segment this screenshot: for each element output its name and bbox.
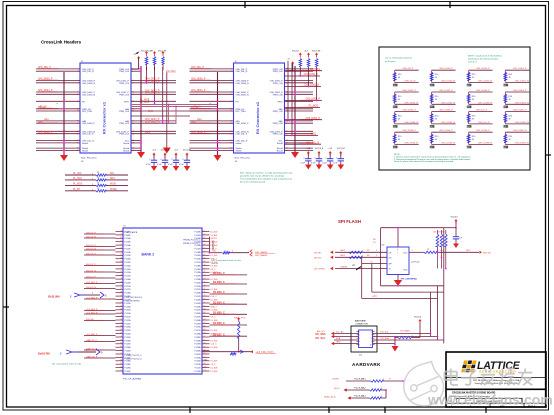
svg-text:PL28A: PL28A (194, 333, 201, 336)
svg-text:21: 21 (120, 268, 122, 270)
svg-text:66: 66 (204, 251, 206, 253)
svg-text:D1_B07: D1_B07 (211, 265, 218, 267)
svg-text:R10: R10 (435, 136, 438, 138)
svg-text:PL10B: PL10B (194, 361, 201, 363)
svg-text:4: 4 (359, 341, 360, 343)
svg-text:CH1_D0S1_N: CH1_D0S1_N (304, 85, 319, 87)
svg-text:+x: +x (56, 103, 58, 105)
svg-text:R10: R10 (398, 116, 401, 118)
svg-text:49: 49 (472, 77, 474, 79)
svg-text:D1_B01: D1_B01 (211, 330, 218, 332)
svg-text:SDOUT: SDOUT (211, 238, 218, 240)
svg-text:50: 50 (120, 367, 122, 369)
svg-text:PWR_LLB: PWR_LLB (119, 71, 129, 73)
svg-text:LED2: LED2 (340, 255, 346, 257)
svg-text:5555 NE Moore Court Hillsbor: 5555 NE Moore Court Hillsboro, Oregon 97… (473, 379, 520, 382)
svg-text:CH0_D0S0_N: CH0_D0S0_N (441, 81, 455, 83)
svg-text:49: 49 (509, 77, 511, 79)
svg-text:64: 64 (204, 244, 206, 246)
svg-text:Shield: Shield (82, 150, 89, 152)
svg-text:PL09B: PL09B (125, 235, 132, 237)
svg-text:1: 1 (412, 250, 413, 252)
svg-text:POD: POD (241, 318, 246, 320)
svg-text:PL18B: PL18B (194, 269, 201, 271)
svg-text:43: 43 (120, 343, 122, 345)
svg-text:D1_B00: D1_B00 (211, 231, 218, 233)
svg-text:DSI_D2_P: DSI_D2_P (86, 245, 96, 247)
svg-text:PL16B: PL16B (194, 255, 201, 257)
svg-text:47: 47 (120, 356, 122, 358)
svg-text:xjN : connected to same of cel: xjN : connected to same of cells (211, 259, 240, 262)
svg-text:CH0_D0S2_P: CH0_D0S2_P (236, 123, 250, 125)
svg-text:CH0_D0S1_P: CH0_D0S1_P (306, 118, 321, 120)
svg-text:VCC1.8: VCC1.8 (292, 51, 299, 53)
svg-text:2: 2 (359, 335, 360, 337)
svg-text:PL23B: PL23B (125, 330, 132, 332)
svg-text:PL26B: PL26B (125, 351, 132, 353)
svg-text:RX5TRIG: RX5TRIG (310, 69, 320, 71)
svg-text:PR09B_PCLKC2_1: PR09B_PCLKC2_1 (183, 243, 201, 245)
svg-text:86: 86 (204, 319, 206, 321)
svg-text:TX5_MA-R: TX5_MA-R (400, 329, 410, 332)
svg-text:Note: FSC-47xx: Note: FSC-47xx (235, 157, 251, 160)
svg-text:DSI_D0_P: DSI_D0_P (86, 276, 96, 278)
svg-text:+3.3: +3.3 (152, 150, 156, 152)
svg-text:PWR_LLB: PWR_LLB (273, 123, 283, 125)
svg-text:70: 70 (204, 264, 206, 266)
svg-text:PL02_SO/SPISO: PL02_SO/SPISO (125, 300, 141, 302)
svg-text:PL29B: PL29B (125, 371, 132, 373)
svg-text:FSC_0P_ALTERA: FSC_0P_ALTERA (123, 378, 141, 381)
svg-text:PWR_LLB: PWR_LLB (273, 111, 283, 113)
svg-text:CH0_D0L_P: CH0_D0L_P (236, 134, 248, 136)
svg-text:34: 34 (120, 312, 122, 314)
svg-text:R10: R10 (509, 96, 512, 98)
svg-text:35: 35 (120, 316, 122, 318)
svg-text:16: 16 (120, 251, 122, 253)
svg-text:33: 33 (120, 309, 122, 311)
svg-text:5: 5 (359, 345, 360, 347)
svg-text:D1_B01: D1_B01 (211, 235, 218, 237)
svg-text:SDA_X: SDA_X (211, 305, 218, 308)
svg-text:PL30A: PL30A (194, 346, 201, 349)
svg-text:R10: R10 (435, 116, 438, 118)
svg-text:CH0_D0_N: CH0_D0_N (404, 81, 416, 83)
svg-text:PWR_LLB: PWR_LLB (119, 134, 129, 136)
svg-text:90: 90 (204, 333, 206, 335)
svg-text:R10: R10 (509, 74, 512, 76)
svg-text:R10: R10 (509, 116, 512, 118)
svg-text:PL_IN: PL_IN (40, 107, 47, 109)
svg-text:PL18A: PL18A (125, 292, 132, 295)
svg-text:I2C_SDA: I2C_SDA (316, 333, 326, 336)
svg-text:CS_X: CS_X (211, 317, 217, 319)
svg-text:75: 75 (204, 281, 206, 283)
svg-text:49: 49 (398, 99, 400, 101)
svg-text:CH0_D0S6_N: CH0_D0S6_N (404, 143, 418, 145)
svg-text:CH0_D0S1_N: CH0_D0S1_N (236, 94, 250, 96)
svg-text:PL12A: PL12A (125, 251, 132, 254)
svg-text:PL27A: PL27A (194, 326, 201, 329)
svg-text:PL13A: PL13A (194, 230, 201, 233)
svg-text:1k: 1k (97, 177, 99, 179)
svg-text:R10: R10 (509, 136, 512, 138)
svg-text:SO: SO (389, 257, 392, 259)
svg-text:49: 49 (398, 77, 400, 79)
svg-text:CLK_X: CLK_X (211, 344, 218, 346)
svg-text:CH0_D0S3_N: CH0_D0S3_N (515, 102, 529, 104)
svg-text:D1_B07: D1_B07 (211, 361, 218, 363)
svg-text:10: 10 (120, 230, 122, 232)
svg-text:RX1_TRIG: RX1_TRIG (236, 111, 247, 113)
svg-text:VCC: VCC (403, 252, 408, 254)
svg-text:PL22B: PL22B (125, 323, 132, 325)
svg-text:PL28B_PCLKC2_0: PL28B_PCLKC2_0 (125, 358, 143, 360)
svg-text:GPIO: GPIO (277, 101, 283, 103)
svg-text:Dx: Dx (205, 360, 207, 362)
svg-text:PL25A: PL25A (194, 312, 201, 315)
svg-text:15: 15 (120, 247, 122, 249)
svg-text:D1_B03: D1_B03 (211, 340, 218, 342)
svg-text:TX5_R-MA-3: TX5_R-MA-3 (354, 395, 367, 398)
svg-text:PWR_LLB: PWR_LLB (119, 111, 129, 113)
svg-text:+D1_B04_P: +D1_B04_P (86, 309, 98, 311)
svg-text:71: 71 (204, 268, 206, 270)
svg-text:CH0_D0S2_N: CH0_D0S2_N (404, 102, 418, 104)
svg-text:GA1: GA1 (197, 118, 202, 121)
svg-text:VCC1_BT: VCC1_BT (312, 51, 321, 53)
svg-text:www.elecfans.com: www.elecfans.com (427, 392, 553, 408)
svg-text:PL26A: PL26A (125, 346, 132, 349)
svg-text:Shield: Shield (123, 150, 130, 152)
svg-text:PL20A: PL20A (125, 305, 132, 308)
svg-text:67: 67 (204, 254, 206, 256)
svg-text:PL15B: PL15B (194, 248, 201, 250)
svg-text:CH0_D0S0_N: CH0_D0S0_N (82, 83, 96, 85)
svg-text:PL11B: PL11B (195, 368, 202, 370)
svg-text:PWR_LLB: PWR_LLB (119, 123, 129, 125)
svg-text:R10: R10 (435, 74, 438, 76)
svg-text:PL21B: PL21B (125, 317, 132, 319)
svg-text:PL25B: PL25B (125, 344, 132, 346)
svg-text:D1_B04: D1_B04 (211, 347, 218, 349)
svg-text:CS_X: CS_X (211, 269, 217, 271)
svg-text:PWR_LLB: PWR_LLB (273, 94, 283, 96)
svg-text:CH0_D0S2_P: CH0_D0S2_P (38, 132, 53, 134)
svg-text:Shield: Shield (236, 143, 243, 145)
svg-text:DSI_D0_N: DSI_D0_N (86, 287, 96, 289)
svg-text:Note : Signals not used here,: Note : Signals not used here, in a high … (240, 172, 292, 175)
svg-text:PL15B: PL15B (125, 276, 132, 278)
svg-text:I2C_SCL: I2C_SCL (316, 337, 326, 340)
svg-text:CH1_D0S2_N: CH1_D0S2_N (441, 102, 455, 104)
svg-text:101: 101 (204, 370, 207, 372)
svg-text:PD: PD (82, 101, 85, 103)
svg-text:CH1_D0S0_N: CH1_D0S0_N (478, 81, 492, 83)
svg-text:92: 92 (204, 339, 206, 341)
svg-text:37: 37 (120, 322, 122, 324)
svg-text:R10: R10 (398, 136, 401, 138)
svg-text:100: 100 (204, 367, 207, 369)
svg-text:3: 3 (359, 338, 360, 340)
svg-text:1: 1 (92, 190, 93, 192)
svg-text:CS_X: CS_X (211, 364, 217, 366)
svg-text:DSI_CK_P: DSI_CK_P (86, 253, 97, 255)
svg-text:49: 49 (398, 118, 400, 120)
svg-text:12: 12 (120, 237, 122, 239)
svg-text:81: 81 (204, 302, 206, 304)
svg-text:TX5PN: TX5PN (332, 379, 339, 381)
svg-text:C9: C9 (460, 238, 462, 240)
svg-text:use as Termination attaches: use as Termination attaches (385, 57, 413, 60)
svg-text:PL20B: PL20B (194, 282, 201, 284)
svg-text:PL28B: PL28B (125, 364, 132, 366)
svg-text:PL23A: PL23A (125, 326, 132, 329)
svg-text:R5: R5 (367, 250, 369, 252)
svg-text:82: 82 (204, 305, 206, 307)
svg-text:(F) SCL: (F) SCL (314, 257, 322, 259)
svg-text:AVK_SCL: AVK_SCL (317, 330, 325, 333)
svg-text:CH0_D0_N: CH0_D0_N (478, 122, 490, 124)
svg-text:CH0_D0S5_N: CH0_D0S5_N (515, 143, 529, 145)
svg-text:RX1_TRIG: RX1_TRIG (82, 111, 93, 113)
svg-text:PL10A: PL10A (125, 237, 132, 240)
svg-text:74: 74 (204, 278, 206, 280)
svg-text:51: 51 (120, 370, 122, 372)
svg-text:PL25B: PL25B (194, 317, 201, 319)
svg-text:97: 97 (204, 356, 206, 358)
svg-text:CH0_D0S1_N: CH0_D0S1_N (145, 122, 160, 124)
svg-text:VCC1.8_B: VCC1.8_B (315, 148, 324, 150)
svg-text:72: 72 (204, 271, 206, 273)
svg-text:78: 78 (204, 292, 206, 294)
svg-text:PL10B: PL10B (125, 242, 132, 244)
svg-text:DSI1: DSI1 (145, 132, 151, 134)
svg-text:PWR_LLB: PWR_LLB (273, 71, 283, 73)
svg-text:PL14B: PL14B (125, 269, 132, 271)
svg-text:PL28A_PCLKT2_0: PL28A_PCLKT2_0 (125, 354, 143, 357)
svg-text:RX Connector x1: RX Connector x1 (102, 101, 107, 134)
svg-text:TX5_R-MA-1: TX5_R-MA-1 (354, 378, 367, 381)
svg-text:xxx Flash: xxx Flash (411, 262, 419, 264)
svg-text:PL19A: PL19A (194, 271, 201, 274)
svg-text:1: 1 (232, 251, 233, 253)
svg-text:These boards deliver great sta: These boards deliver great standards in … (240, 178, 292, 181)
svg-text:DSI_D1_N: DSI_D1_N (86, 270, 96, 272)
svg-text:7.5: 7.5 (373, 242, 376, 244)
svg-text:PL17A: PL17A (194, 258, 201, 261)
svg-text:18: 18 (120, 258, 122, 260)
svg-text:PL22A: PL22A (125, 319, 132, 322)
svg-text:(F) A5_M_D-: (F) A5_M_D- (324, 395, 336, 398)
svg-text:20: 20 (120, 264, 122, 266)
svg-text:PWR_LLB: PWR_LLB (119, 83, 129, 85)
svg-text:84: 84 (204, 312, 206, 314)
svg-text:SPI1 (F): SPI1 (F) (483, 252, 491, 254)
svg-text:1k: 1k (97, 188, 99, 190)
svg-text:CH0_D0L_N: CH0_D0L_N (82, 71, 94, 73)
svg-text:PL26A: PL26A (194, 319, 201, 322)
svg-text:CH0_D0S0_P: CH0_D0S0_P (191, 79, 206, 81)
svg-text:PL17B: PL17B (125, 289, 132, 291)
svg-text:CSSPN: CSSPN (340, 266, 348, 268)
svg-text:DSI_D3_N: DSI_D3_N (86, 236, 96, 238)
svg-text:PL28B: PL28B (194, 337, 201, 339)
svg-text:GA1: GA1 (44, 118, 49, 121)
svg-text:Shield: Shield (277, 143, 284, 145)
svg-text:PL29B: PL29B (194, 344, 201, 346)
svg-text:PL24B: PL24B (194, 310, 201, 312)
svg-text:GND: GND (336, 342, 341, 344)
svg-text:85: 85 (204, 316, 206, 318)
svg-text:68: 68 (204, 258, 206, 260)
svg-text:49: 49 (435, 77, 437, 79)
svg-text:CH0_D0S2_P: CH0_D0S2_P (82, 123, 96, 125)
svg-text:RX2_BA640: RX2_BA640 (255, 254, 268, 257)
svg-text:73: 73 (204, 275, 206, 277)
svg-text:VCC1_BT: VCC1_BT (183, 150, 192, 152)
svg-text:88: 88 (204, 326, 206, 328)
svg-text:R10: R10 (472, 74, 475, 76)
svg-text:17: 17 (120, 254, 122, 256)
svg-text:PL09B: PL09B (194, 354, 201, 356)
svg-text:77: 77 (204, 288, 206, 290)
svg-text:49: 49 (472, 139, 474, 141)
svg-text:63: 63 (204, 241, 206, 243)
svg-text:VCC3.3: VCC3.3 (451, 217, 459, 219)
svg-text:LED1: LED1 (340, 250, 346, 252)
svg-text:best in the termination ground: best in the termination ground. (240, 181, 266, 184)
svg-text:CH0_D0S4_N: CH0_D0S4_N (404, 122, 418, 124)
svg-text:GA1: GA1 (148, 110, 153, 113)
svg-text:PL_MOS: PL_MOS (309, 106, 319, 108)
svg-text:R8: R8 (373, 239, 375, 241)
svg-text:40: 40 (120, 333, 122, 335)
svg-text:Note: FSC-47xx: Note: FSC-47xx (81, 157, 97, 160)
svg-text:VCC1.8_B: VCC1.8_B (161, 150, 170, 152)
svg-text:DSI_D2_N: DSI_D2_N (86, 248, 96, 250)
svg-text:PL_IN: PL_IN (194, 107, 201, 109)
svg-text:PL29A: PL29A (125, 367, 132, 370)
svg-text:(F) SPI: (F) SPI (314, 252, 321, 254)
svg-text:3: 3 (376, 250, 377, 252)
svg-text:CONNECTOR: CONNECTOR (355, 323, 368, 325)
svg-text:DSI1: DSI1 (311, 134, 317, 136)
svg-text:+D1_B05_P: +D1_B05_P (86, 334, 98, 336)
svg-text:PWR_LLB: PWR_LLB (119, 94, 129, 96)
svg-text:8: 8 (397, 250, 398, 252)
svg-text:10: 10 (370, 345, 372, 347)
svg-text:+3.3: +3.3 (372, 296, 377, 298)
svg-text:PD: PD (236, 101, 239, 103)
svg-text:PL16A: PL16A (194, 251, 201, 254)
svg-text:SCL_A5: SCL_A5 (336, 331, 344, 334)
svg-text:+D1_B04_N: +D1_B04_N (86, 312, 98, 314)
svg-text:31: 31 (120, 302, 122, 304)
svg-text:91: 91 (204, 336, 206, 338)
svg-text:7: 7 (371, 335, 372, 337)
svg-text:CH0_D0S2_P: CH0_D0S2_P (191, 132, 206, 134)
svg-text:PL15A: PL15A (125, 271, 132, 274)
svg-text:39: 39 (120, 329, 122, 331)
svg-text:93: 93 (204, 343, 206, 345)
svg-text:60: 60 (204, 230, 206, 232)
svg-text:1: 1 (92, 174, 93, 176)
svg-text:65: 65 (204, 247, 206, 249)
svg-text:+D1_B03_P: +D1_B03_P (86, 297, 98, 299)
svg-text:R10: R10 (398, 96, 401, 98)
svg-text:80: 80 (204, 298, 206, 300)
svg-text:61: 61 (204, 234, 206, 236)
svg-text:49: 49 (509, 139, 511, 141)
svg-text:PL13B: PL13B (194, 235, 201, 237)
svg-text:PL26B: PL26B (194, 323, 201, 325)
svg-text:attaching on the land area boa: attaching on the land area board (468, 58, 499, 61)
svg-text:R10: R10 (472, 136, 475, 138)
svg-text:49: 49 (435, 118, 437, 120)
svg-text:PL13A: PL13A (125, 258, 132, 261)
svg-text:87: 87 (204, 322, 206, 324)
svg-text:38: 38 (120, 326, 122, 328)
svg-text:41: 41 (120, 336, 122, 338)
svg-text:+3.3: +3.3 (304, 51, 308, 53)
svg-text:9: 9 (371, 341, 372, 343)
svg-text:28: 28 (120, 292, 122, 294)
svg-text:PL22A: PL22A (194, 292, 201, 295)
svg-text:DSI_EN: DSI_EN (86, 319, 94, 321)
svg-text:76: 76 (204, 285, 206, 287)
svg-text:96: 96 (204, 353, 206, 355)
svg-text:Shield: Shield (236, 150, 243, 152)
svg-text:PL09A: PL09A (194, 350, 201, 353)
svg-text:+x: +x (286, 67, 288, 69)
svg-text:13: 13 (120, 241, 122, 243)
svg-text:CH0_D0S1_N: CH0_D0S1_N (82, 94, 96, 96)
svg-text:19: 19 (120, 261, 122, 263)
svg-text:CH0_D0S1_P: CH0_D0S1_P (191, 90, 206, 92)
svg-text:+D1_B02_P: +D1_B02_P (86, 282, 98, 284)
svg-text:94: 94 (204, 346, 206, 348)
svg-text:TX5_SCL: TX5_SCL (380, 332, 390, 334)
svg-text:26: 26 (120, 285, 122, 287)
svg-text:2x5: 2x5 (359, 355, 362, 357)
svg-text:TX5_SDA: TX5_SDA (380, 337, 390, 340)
svg-text:R10: R10 (435, 96, 438, 98)
svg-text:36: 36 (120, 319, 122, 321)
svg-text:1k: 1k (97, 182, 99, 184)
svg-text:45: 45 (120, 350, 122, 352)
svg-text:22: 22 (120, 271, 122, 273)
svg-text:+3.3: +3.3 (328, 148, 332, 150)
svg-text:PR09A_PCLKT2_1: PR09A_PCLKT2_1 (183, 239, 201, 242)
svg-text:PL14A: PL14A (125, 264, 132, 267)
svg-text:PL24B: PL24B (125, 337, 132, 339)
svg-text:PWR_LLB: PWR_LLB (273, 83, 283, 85)
svg-text:(F) CSSPN: (F) CSSPN (314, 268, 325, 270)
svg-text:PL11B: PL11B (125, 248, 132, 250)
svg-text:CH1_D0S6_N: CH1_D0S6_N (441, 143, 455, 145)
svg-text:PL16A: PL16A (125, 278, 132, 281)
svg-text:PL24A: PL24A (194, 305, 201, 308)
svg-text:1: 1 (92, 184, 93, 186)
svg-text:CH1_D0S4_N: CH1_D0S4_N (441, 122, 455, 124)
svg-text:46: 46 (120, 353, 122, 355)
svg-text:DSI_D3_P: DSI_D3_P (86, 232, 96, 234)
svg-text:R7: R7 (427, 249, 429, 251)
svg-text:CH1_D0S2_P: CH1_D0S2_P (306, 99, 321, 101)
svg-text:D1_B02: D1_B02 (211, 242, 218, 244)
svg-text:PL19B: PL19B (125, 303, 132, 305)
